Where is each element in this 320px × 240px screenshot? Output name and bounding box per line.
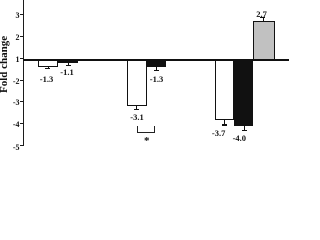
bar group1 black -1.1	[58, 60, 78, 63]
error bar group2 white	[136, 106, 137, 109]
significance asterisk	[144, 137, 150, 146]
error bar group1 black	[68, 63, 69, 65]
y-axis tick 1	[20, 58, 23, 59]
error bar group1 white	[48, 67, 49, 68]
y-axis label 2	[0, 34, 20, 42]
value label -3.1 group2	[130, 113, 143, 122]
y-axis label -2	[0, 78, 20, 86]
error bar group3 black	[244, 126, 245, 131]
bar group3 white -3.7	[215, 60, 234, 120]
value label -3.7 group3	[212, 129, 225, 138]
x baseline at fold change 1/-1	[23, 59, 289, 60]
y-axis tick -5	[20, 145, 23, 146]
y-axis label -3	[0, 99, 20, 107]
y-axis	[23, 0, 24, 146]
y-axis tick 2	[20, 36, 23, 37]
y-axis title Fold change	[0, 35, 10, 92]
y-axis label 1	[0, 56, 20, 64]
value label -4.0 group3	[233, 134, 246, 143]
y-axis label 3	[0, 12, 20, 20]
value label -1.3 group2	[150, 75, 163, 84]
bar gray 2.7	[253, 21, 274, 60]
value label -1.1 group1	[60, 68, 73, 77]
y-axis tick -4	[20, 123, 23, 124]
significance bracket group2	[137, 126, 155, 133]
error bar group3 white	[224, 120, 225, 125]
bar group1 white -1.3	[38, 60, 58, 67]
error bar group2 black	[156, 67, 157, 71]
y-axis tick -2	[20, 80, 23, 81]
error bar gray	[263, 17, 264, 21]
bar group3 black -4.0	[234, 60, 254, 126]
value label 2.7 gray	[256, 10, 267, 19]
y-axis tick -3	[20, 101, 23, 102]
y-axis label -5	[0, 144, 20, 152]
bar group2 white -3.1	[127, 60, 146, 107]
y-axis label -4	[0, 121, 20, 129]
value label -1.3 group1	[40, 75, 53, 84]
y-axis tick 3	[20, 14, 23, 15]
bar group2 black -1.3	[147, 60, 166, 67]
